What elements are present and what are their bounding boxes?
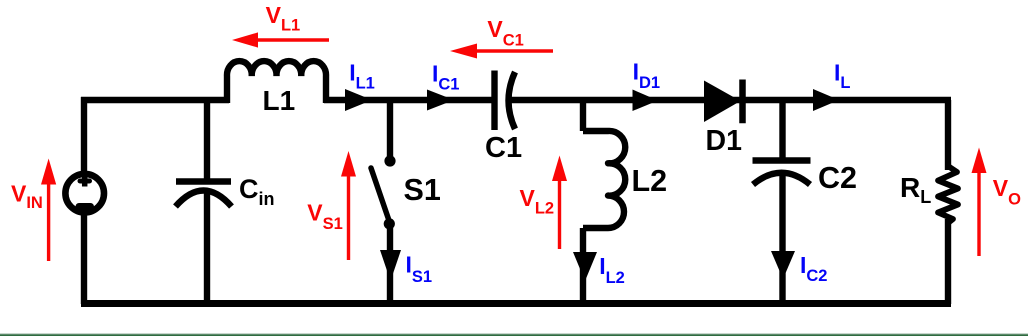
voltage arrow VIN [47, 182, 50, 261]
diode D1 [704, 81, 741, 123]
source VIN [65, 174, 104, 213]
wire top segment middle [324, 97, 495, 103]
svg-text:IL: IL [834, 60, 850, 93]
svg-text:L1: L1 [263, 85, 296, 116]
wire L2 branch lower [580, 228, 586, 304]
current arrow IL2 [573, 252, 597, 281]
current arrow IL1 [345, 89, 372, 111]
capacitor C1 [491, 71, 497, 131]
svg-text:IS1: IS1 [406, 252, 433, 287]
switch S1 [384, 155, 395, 166]
capacitor C2 [753, 157, 811, 163]
svg-text:IL2: IL2 [599, 253, 625, 287]
svg-text:C2: C2 [818, 161, 857, 195]
svg-text:IC2: IC2 [800, 252, 827, 285]
svg-text:Cin: Cin [239, 174, 275, 209]
current arrow IC1 [427, 90, 454, 111]
capacitor Cin [176, 178, 231, 184]
wire C2 branch lower [779, 172, 785, 304]
bottom green border line [0, 332, 1028, 335]
svg-text:IL1: IL1 [349, 60, 375, 93]
current arrow IL [813, 89, 839, 111]
svg-text:VL2: VL2 [520, 185, 555, 218]
wire right vertical lower [945, 219, 951, 304]
svg-text:L2: L2 [632, 164, 668, 198]
voltage arrow VL2 [558, 179, 561, 249]
svg-text:C1: C1 [485, 132, 522, 164]
voltage arrow VL1 [255, 38, 329, 41]
wire Cin branch lower [204, 193, 210, 304]
resistor RL [938, 166, 958, 223]
current arrow IC2 [771, 251, 795, 279]
wire top segment right [508, 97, 951, 103]
wire top segment left [81, 97, 229, 103]
wire bottom rail [81, 300, 951, 307]
svg-text:VO: VO [993, 175, 1021, 209]
svg-text:VC1: VC1 [487, 16, 523, 50]
voltage arrow VS1 [347, 174, 350, 260]
svg-text:IC1: IC1 [432, 61, 459, 94]
wire L2 branch upper [580, 100, 586, 131]
wire right vertical upper [945, 100, 951, 170]
wire switch branch upper [387, 100, 393, 157]
svg-text:VIN: VIN [11, 181, 43, 213]
wire Cin branch upper [204, 100, 210, 179]
svg-text:VS1: VS1 [307, 200, 343, 234]
inductor L1 [227, 61, 326, 103]
wire left vertical [81, 97, 87, 304]
svg-text:VL1: VL1 [266, 2, 301, 35]
wire C2 branch upper [779, 100, 785, 158]
wire switch branch lower [387, 226, 393, 304]
current arrow ID1 [633, 90, 659, 112]
svg-text:ID1: ID1 [633, 59, 660, 93]
voltage arrow VC1 [475, 49, 553, 52]
svg-text:S1: S1 [404, 173, 441, 207]
svg-text:RL: RL [900, 172, 931, 207]
svg-text:D1: D1 [706, 125, 743, 157]
current arrow IS1 [380, 250, 401, 281]
inductor L2 [583, 131, 625, 228]
voltage arrow VO [977, 171, 980, 256]
